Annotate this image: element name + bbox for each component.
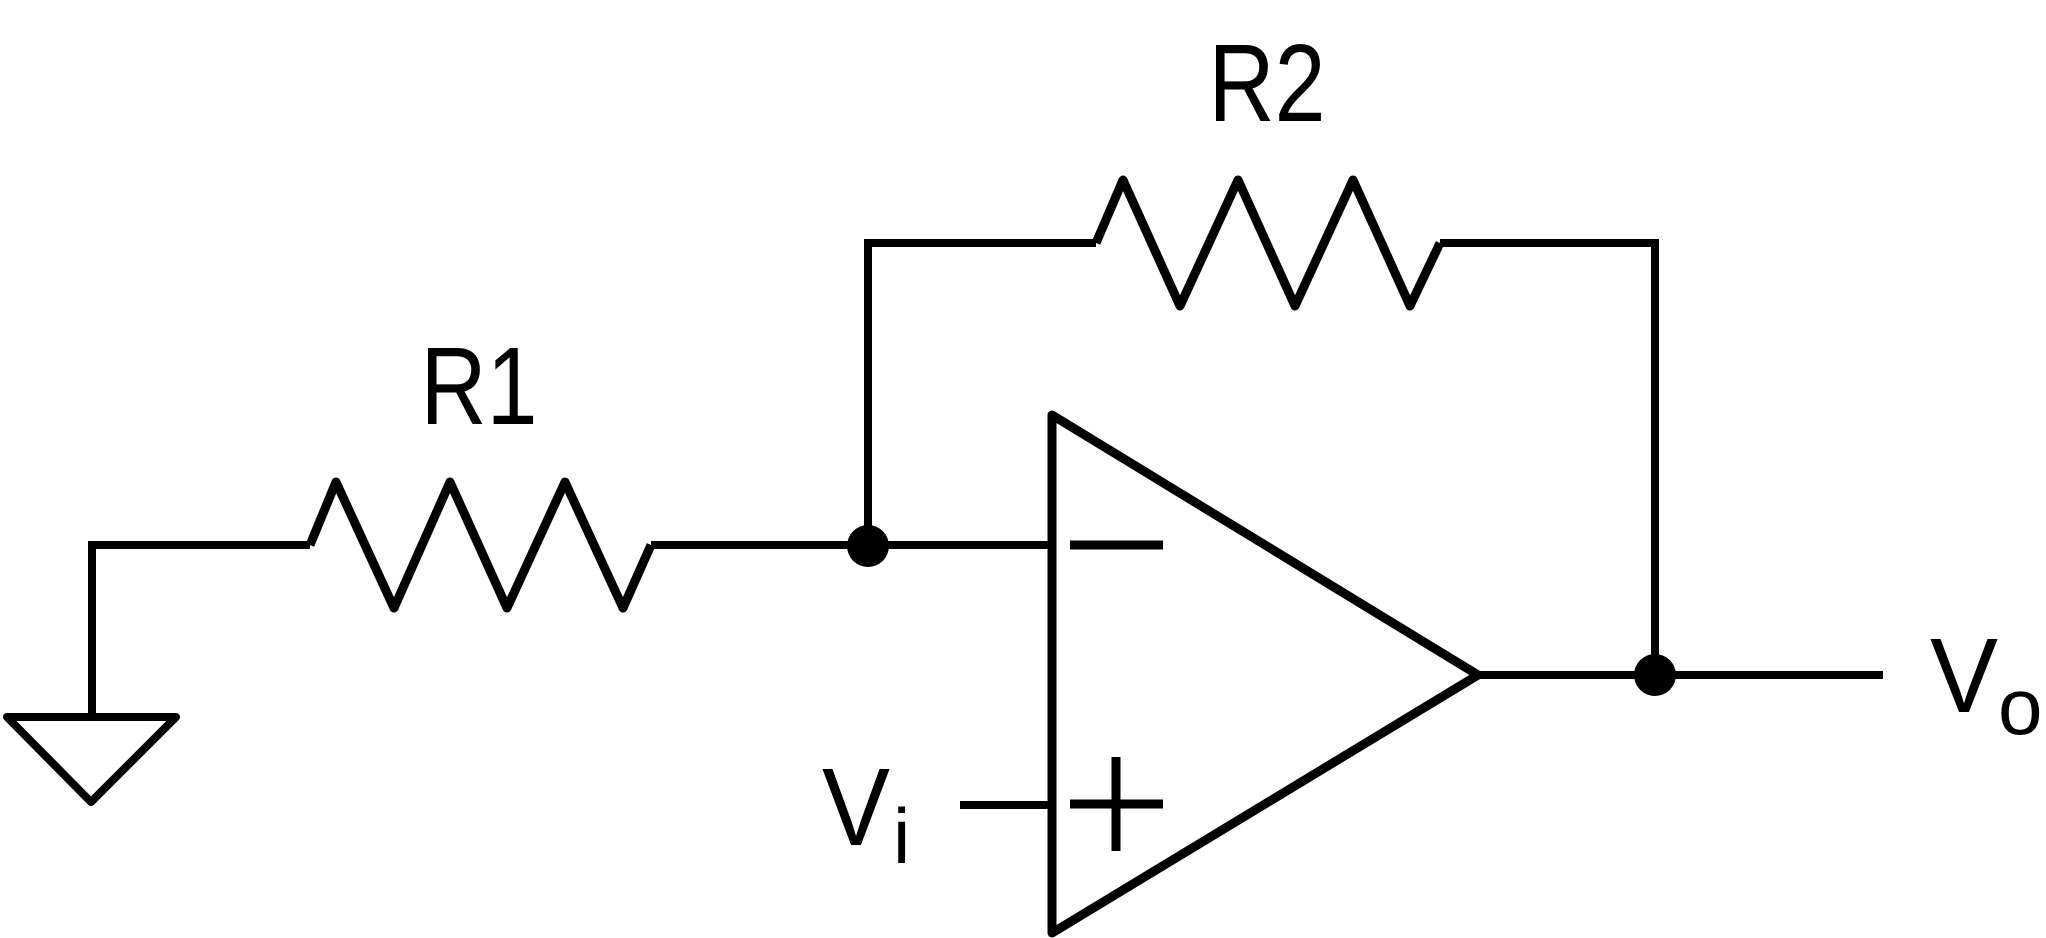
op-amp U1 xyxy=(1052,415,1478,933)
wire op-amp output to Vo xyxy=(1478,671,1883,679)
svg-text:R2: R2 xyxy=(1209,22,1326,145)
svg-text:i: i xyxy=(893,792,910,880)
svg-text:R1: R1 xyxy=(421,325,538,448)
ground xyxy=(7,717,176,802)
svg-text:V: V xyxy=(822,746,890,869)
resistor R1 xyxy=(310,482,651,608)
node B output junction dot xyxy=(1634,654,1676,696)
wire ground to R1 xyxy=(92,545,310,717)
wire R2 right down to output node xyxy=(1440,243,1655,675)
wire Vi to non-inverting input xyxy=(960,801,1052,809)
plus sign non-inverting input xyxy=(1070,757,1163,851)
svg-text:V: V xyxy=(1930,617,1998,735)
resistor R2 xyxy=(1096,180,1440,306)
node A junction dot xyxy=(847,525,889,567)
wire node A up to R2 left xyxy=(868,243,1096,546)
wire R1 to op-amp inverting input xyxy=(651,541,1052,549)
minus sign inverting input xyxy=(1070,541,1163,550)
svg-text:o: o xyxy=(1998,662,2043,751)
